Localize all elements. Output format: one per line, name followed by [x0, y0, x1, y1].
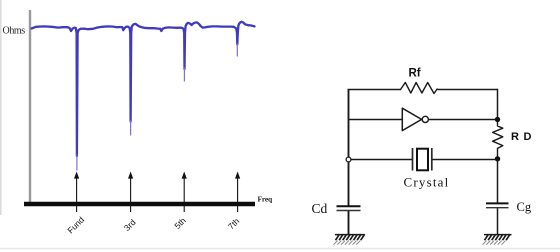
capacitor Cg: [486, 203, 509, 207]
tick label 5th: [172, 215, 188, 231]
svg-text:Rf: Rf: [409, 68, 421, 80]
crystal impedance trace: [32, 22, 255, 170]
wire Cg to ground: [497, 208, 499, 234]
x-axis (frequency): [24, 202, 255, 207]
label Cd: [312, 201, 328, 216]
arrow marker 3rd overtone: [128, 172, 133, 213]
svg-text:Freq: Freq: [258, 195, 274, 204]
svg-text:Cg: Cg: [517, 200, 532, 214]
label RD: [511, 131, 536, 143]
ground (right, below Cg): [483, 234, 512, 244]
axis label Freq: [258, 195, 274, 204]
crystal Y1: [413, 148, 432, 171]
wire crystal left: [349, 159, 412, 161]
resistor RD: [493, 122, 503, 157]
wire right rail upper: [497, 89, 499, 121]
node left rail crystal tap (open circle): [346, 157, 351, 162]
y-axis (Ohms): [29, 10, 31, 203]
label Cg: [517, 200, 532, 214]
axis label Ohms: [3, 26, 26, 37]
inverter U1: [402, 108, 428, 130]
label Crystal: [404, 175, 450, 190]
tick label 3rd: [122, 217, 138, 233]
svg-text:Crystal: Crystal: [404, 175, 450, 190]
arrow marker 5th overtone: [182, 172, 187, 213]
junction node crystal right / RD bottom: [495, 156, 500, 161]
svg-text:Ohms: Ohms: [3, 26, 26, 37]
resistor Rf: [401, 83, 438, 94]
wire top left segment: [348, 89, 401, 91]
svg-text:Cd: Cd: [312, 201, 328, 216]
wire crystal right: [433, 159, 498, 161]
wire inverter output: [429, 119, 498, 121]
wire right rail lower (to Cg): [497, 159, 499, 203]
tick label Fund: [65, 214, 86, 235]
wire inverter input: [349, 119, 402, 121]
ground (left, below Cd): [334, 234, 365, 244]
label Rf: [409, 68, 421, 80]
tick label 7th: [226, 216, 242, 232]
wire top right segment: [438, 89, 499, 91]
svg-text:RD: RD: [511, 131, 536, 143]
wire Cd to ground: [348, 211, 350, 235]
arrow marker 7th overtone: [235, 172, 240, 213]
junction node inverter output / RD top: [495, 117, 500, 122]
arrow marker fundamental: [74, 172, 79, 213]
wire left rail: [348, 89, 350, 206]
capacitor Cd: [337, 206, 361, 210]
